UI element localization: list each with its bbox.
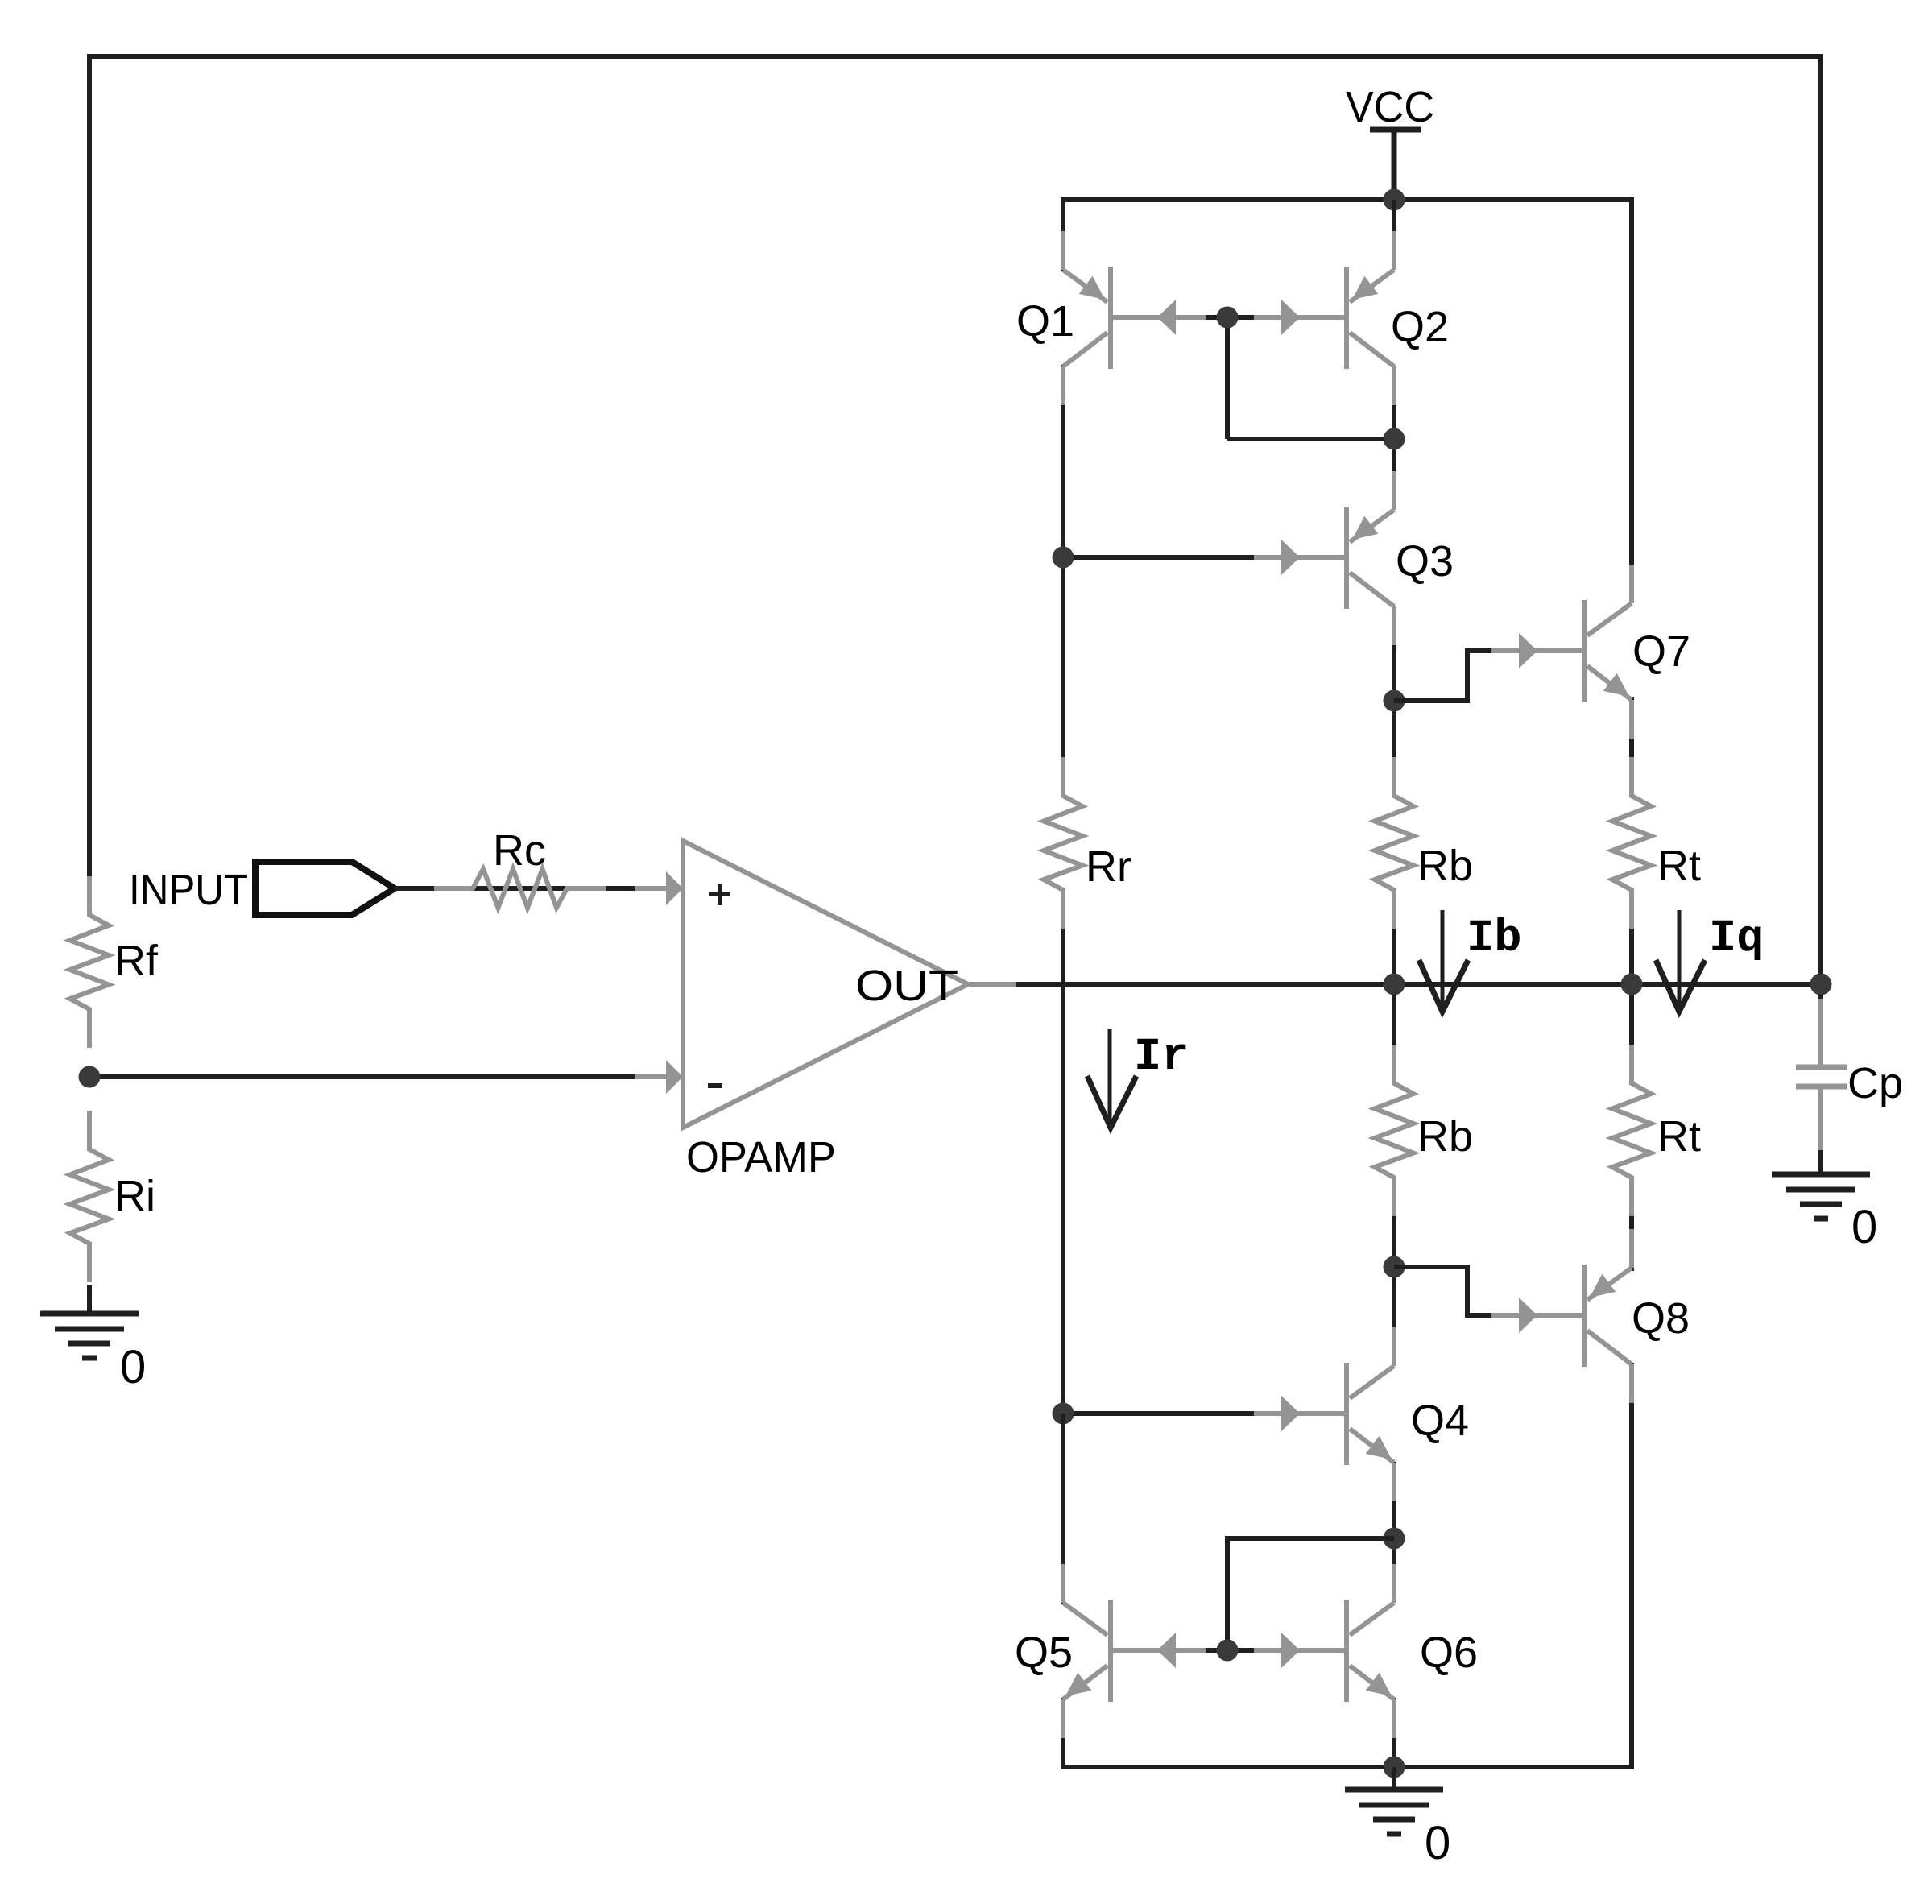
resistor Rt upper xyxy=(1612,757,1651,929)
svg-text:0: 0 xyxy=(120,1341,146,1393)
resistor Ri xyxy=(70,1111,109,1282)
node OUT/Rb junction dot xyxy=(1384,974,1405,995)
node OUT/border/Cp junction dot xyxy=(1810,974,1832,995)
svg-text:Q6: Q6 xyxy=(1420,1629,1478,1677)
wire Q4 emitter to Q6 collector xyxy=(1392,1462,1396,1603)
wire minus feedback from Rf/Ri node to op-amp xyxy=(89,1074,681,1079)
transistor Q5 xyxy=(1111,1648,1203,1653)
wire OUT net horizontal xyxy=(968,982,1821,987)
op-amp - input pin stub and arrow xyxy=(635,1074,683,1079)
svg-text:Q4: Q4 xyxy=(1411,1397,1469,1445)
wire black L from base tie down to Q2 collector node xyxy=(1206,315,1256,320)
op-amp output pin stub xyxy=(968,982,1016,987)
node Q4 emitter junction dot xyxy=(1384,1528,1405,1550)
wire Q7 collector column from rail corner xyxy=(1629,197,1634,603)
port INPUT connector xyxy=(255,862,395,915)
ground 0 right xyxy=(1772,1172,1870,1178)
svg-text:Rb: Rb xyxy=(1417,842,1473,890)
svg-text:Q3: Q3 xyxy=(1396,537,1454,586)
current arrow Ir xyxy=(1108,1029,1112,1124)
svg-text:VCC: VCC xyxy=(1346,83,1434,131)
power symbol VCC xyxy=(1370,127,1421,133)
node Q4 collector junction dot xyxy=(1384,1256,1405,1278)
transistor Q4 xyxy=(1254,1411,1347,1416)
wire bottom rail ground net xyxy=(1061,1765,1632,1769)
transistor Q2 xyxy=(1254,315,1347,320)
svg-text:Ri: Ri xyxy=(114,1172,155,1220)
capacitor Cp xyxy=(1818,999,1823,1065)
node VCC junction dot xyxy=(1384,189,1405,211)
wire Rt2 bottom to Q8 emitter xyxy=(1629,1178,1634,1271)
svg-text:Rt: Rt xyxy=(1657,842,1701,890)
wire Rt1 bottom to OUT node xyxy=(1629,890,1634,1085)
wire Q1 collector column down to Q3 base node xyxy=(1061,365,1065,797)
svg-text:Q8: Q8 xyxy=(1632,1294,1690,1343)
wire INPUT to Rc xyxy=(395,886,681,891)
resistor Rb lower xyxy=(1375,1045,1413,1216)
wire Q3 collector down to Rb node xyxy=(1392,606,1396,797)
wire Rb1 bottom to OUT node xyxy=(1392,890,1396,1085)
wire Cp to ground xyxy=(1818,1150,1823,1174)
op-amp - symbol xyxy=(708,1083,722,1088)
svg-text:Rr: Rr xyxy=(1086,842,1131,891)
svg-text:Ir: Ir xyxy=(1134,1032,1189,1083)
wire outer border right xyxy=(1818,54,1823,999)
ground 0 left xyxy=(40,1311,139,1317)
node Q3 collector junction dot xyxy=(1384,690,1405,712)
current arrow Iq xyxy=(1678,910,1682,1008)
wire outer border top xyxy=(89,54,1821,59)
wire Q2 emitter column from VCC dot xyxy=(1392,200,1396,270)
svg-text:0: 0 xyxy=(1425,1817,1450,1869)
wire black L from Q4 emitter node to Q5/Q6 base tie xyxy=(1227,1538,1394,1650)
svg-text:Rt: Rt xyxy=(1657,1112,1701,1161)
svg-text:Rc: Rc xyxy=(493,826,546,875)
svg-text:Iq: Iq xyxy=(1709,913,1764,965)
wire step from Q3 collector node to Q7 base xyxy=(1394,651,1494,701)
wire Ri bottom to ground xyxy=(87,1285,92,1314)
wire Q2 collector to Q3 emitter xyxy=(1392,366,1396,509)
svg-text:OPAMP: OPAMP xyxy=(686,1133,836,1182)
wire Q3 base from left column xyxy=(1063,555,1256,560)
wire Q1/Q2 base tie bar xyxy=(1110,315,1347,320)
resistor Rr xyxy=(1044,757,1082,929)
node Q4 base tap dot on left column xyxy=(1053,1403,1074,1425)
svg-text:Rf: Rf xyxy=(114,937,159,985)
resistor Rb upper xyxy=(1375,757,1413,929)
wire Rb2 bottom to Q4 collector node xyxy=(1392,1178,1396,1365)
svg-text:Q1: Q1 xyxy=(1016,297,1074,346)
op-amp U1 triangle xyxy=(683,841,968,1128)
wire Q6 emitter to bottom rail xyxy=(1392,1698,1396,1767)
node Q3 base tap dot on left column xyxy=(1053,547,1074,569)
svg-text:Q7: Q7 xyxy=(1632,627,1690,676)
resistor Rf xyxy=(70,876,109,1048)
node Q2 collector junction dot xyxy=(1384,428,1405,450)
transistor Q3 xyxy=(1254,555,1347,560)
node OUT/Rt junction dot xyxy=(1621,974,1643,995)
svg-text:Q5: Q5 xyxy=(1015,1629,1073,1677)
svg-text:OUT: OUT xyxy=(855,962,958,1010)
wire top rail VCC net xyxy=(1061,197,1632,202)
wire outer border left xyxy=(87,54,92,878)
node Rf/Ri junction dot xyxy=(79,1066,101,1088)
svg-text:Ib: Ib xyxy=(1467,913,1521,965)
svg-text:Cp: Cp xyxy=(1847,1059,1903,1107)
op-amp + input pin stub and arrow xyxy=(635,886,683,891)
wire Q5/Q6 base tie bar xyxy=(1110,1648,1347,1653)
resistor Rc xyxy=(434,869,606,908)
svg-text:INPUT: INPUT xyxy=(129,866,248,914)
transistor Q1 xyxy=(1111,315,1203,320)
wire Q4 base from left column xyxy=(1063,1411,1256,1416)
wire Q7 emitter down to Rt top xyxy=(1629,697,1634,797)
wire Q5 emitter to bottom rail xyxy=(1061,1698,1065,1769)
wire Rr bottom to Q4 base node (crosses OUT) xyxy=(1061,890,1065,1415)
wire Q8 collector column to bottom rail xyxy=(1629,1363,1634,1769)
node Q1/Q2 base junction dot xyxy=(1217,307,1239,329)
node bottom rail ground junction dot xyxy=(1384,1757,1405,1778)
ground 0 bottom xyxy=(1392,1767,1396,1790)
transistor Q8 xyxy=(1491,1313,1584,1318)
resistor Rt lower xyxy=(1612,1045,1651,1216)
current arrow Ib xyxy=(1441,910,1445,1008)
wire step from Q4 collector node to Q8 base xyxy=(1394,1267,1495,1315)
transistor Q7 xyxy=(1491,648,1584,653)
wire Q1 emitter column from rail xyxy=(1061,197,1065,271)
svg-text:Rb: Rb xyxy=(1417,1112,1473,1161)
transistor Q6 xyxy=(1254,1648,1347,1653)
op-amp + symbol xyxy=(709,892,730,896)
node Q5/Q6 base junction dot xyxy=(1217,1640,1239,1662)
svg-text:0: 0 xyxy=(1851,1201,1877,1253)
svg-text:Q2: Q2 xyxy=(1391,303,1449,351)
wire Q5 collector column from Q4-base node xyxy=(1061,1414,1065,1604)
